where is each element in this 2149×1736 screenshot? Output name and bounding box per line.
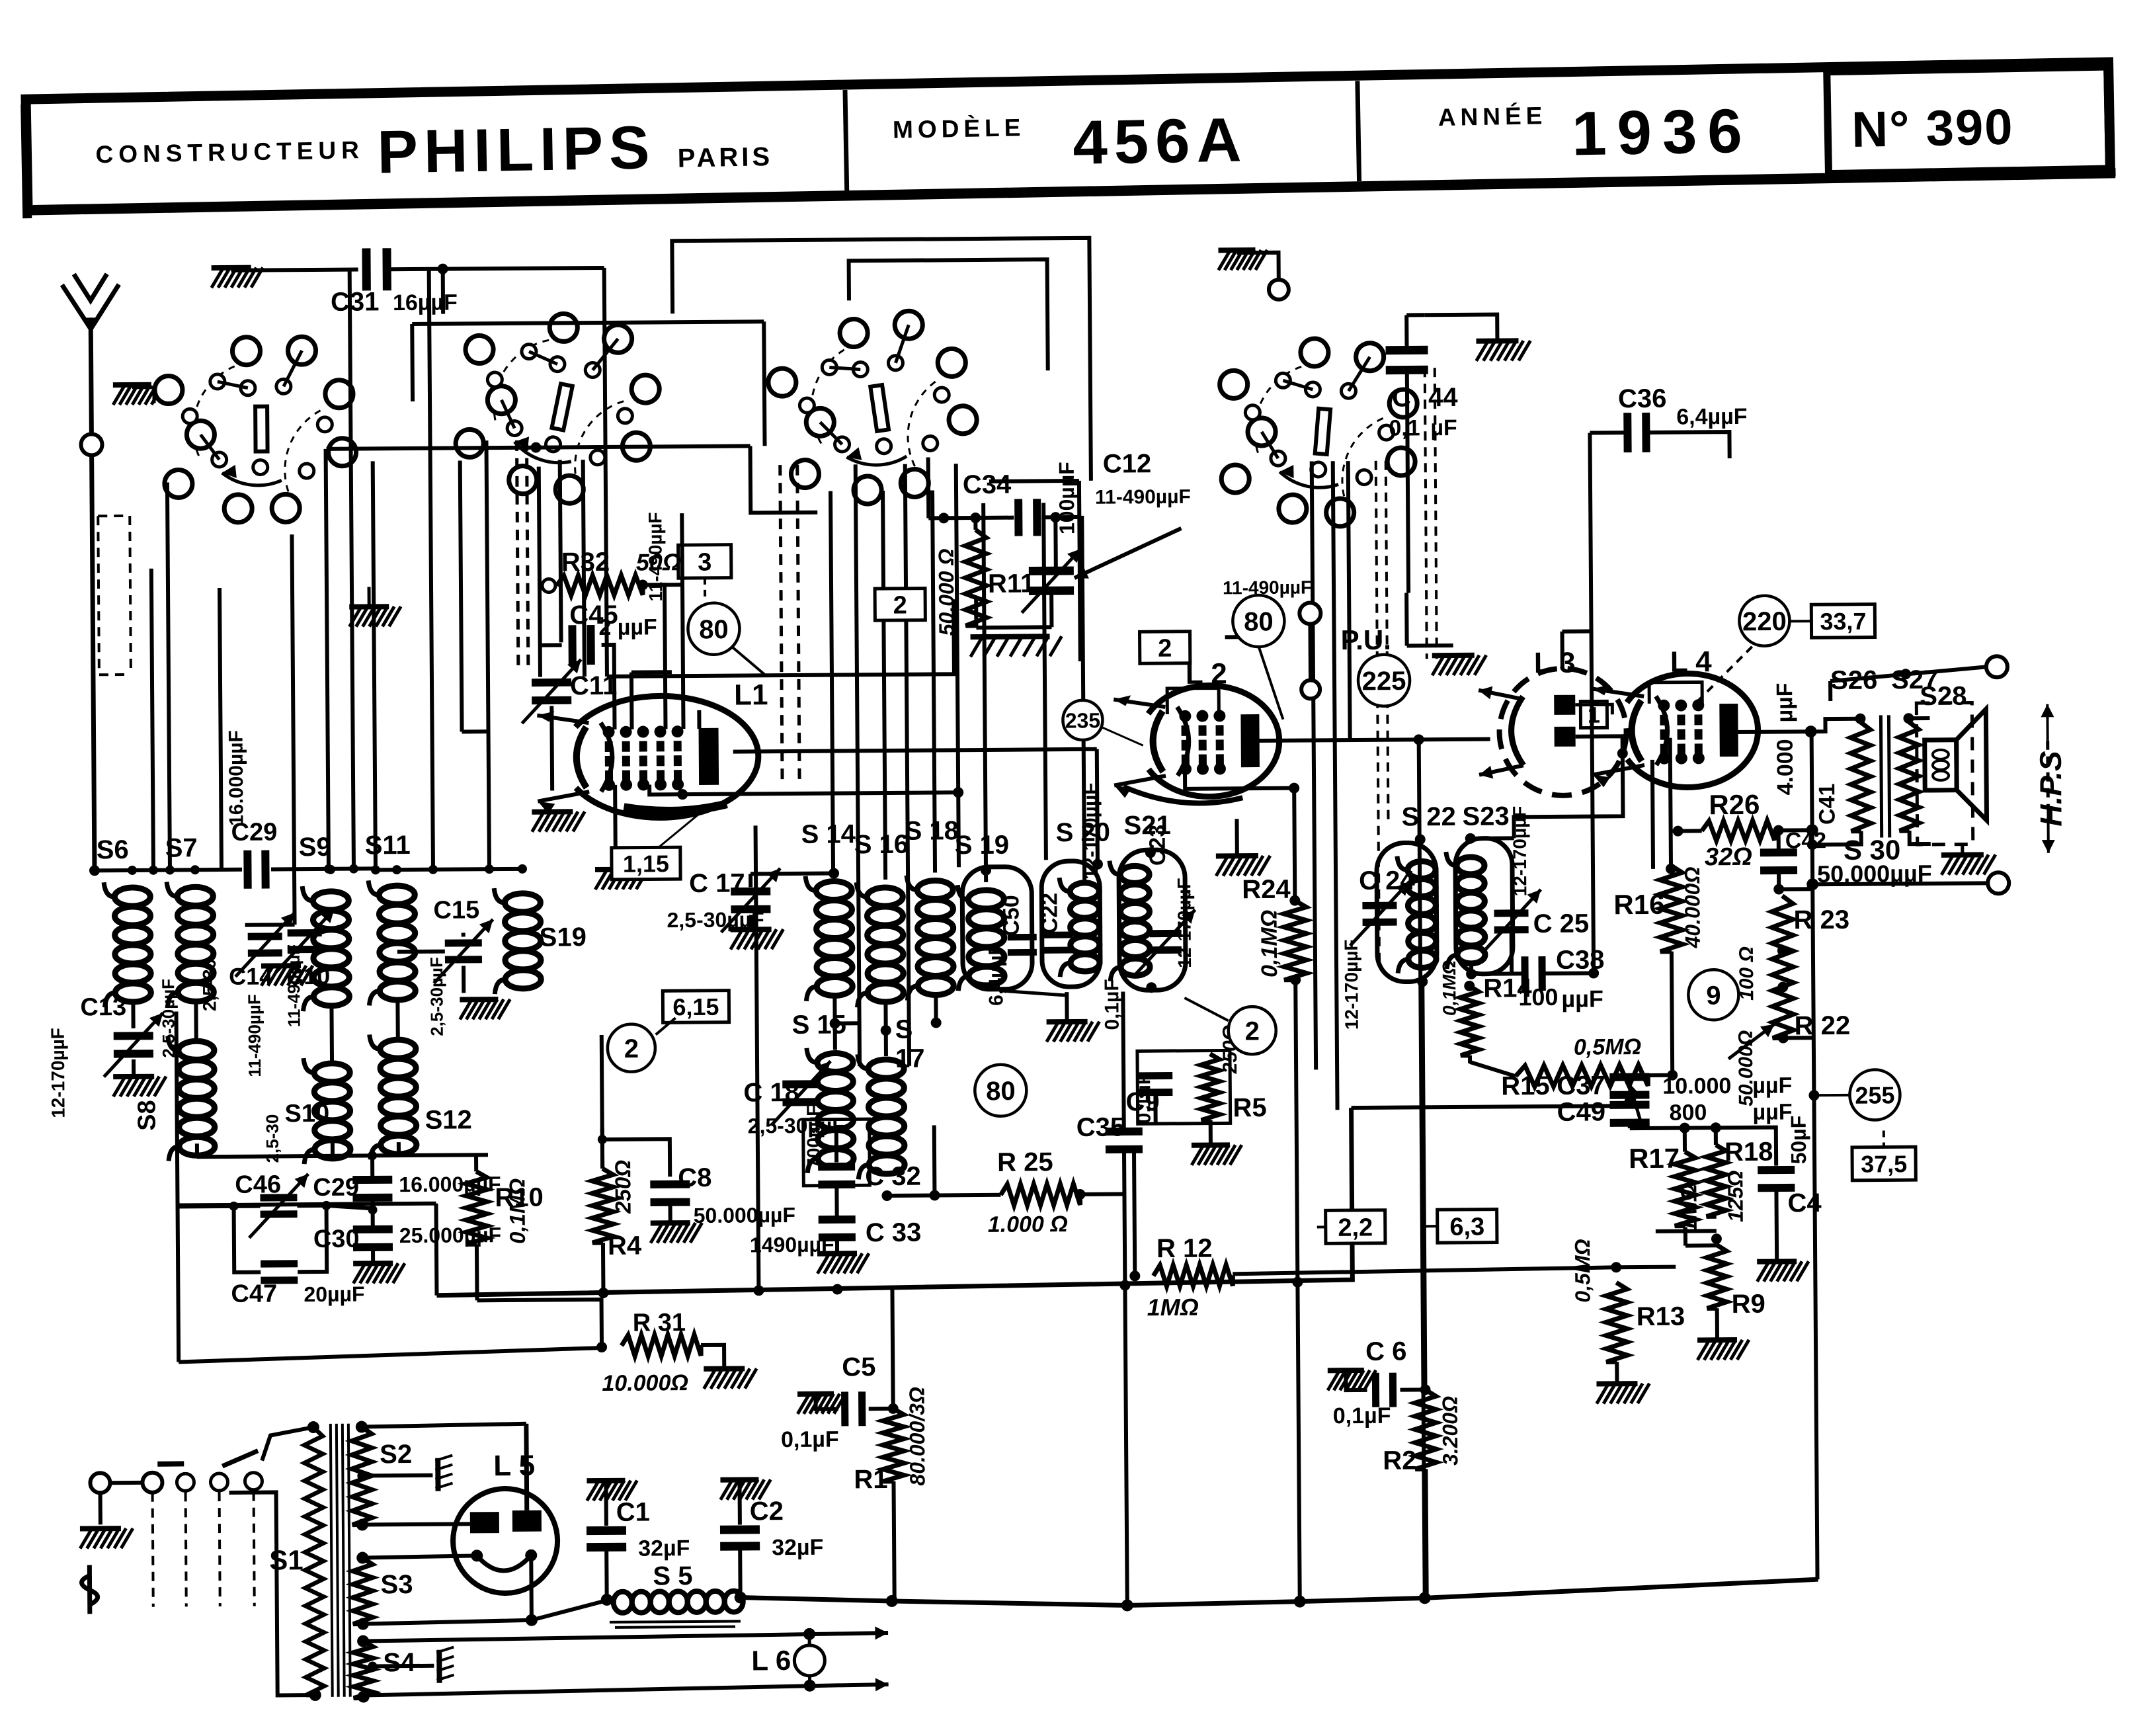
junction xyxy=(1119,1280,1130,1290)
capacitor C36 xyxy=(1623,413,1650,452)
tank outline S20-C22 xyxy=(1041,861,1100,987)
wire S19 tank to ground xyxy=(999,990,1067,996)
junction S21 bottom xyxy=(1146,982,1156,993)
wire to HPS terminal top xyxy=(1830,667,1986,681)
callout box 1 in L3 xyxy=(1580,701,1607,728)
wire R1 down to bus xyxy=(893,1481,894,1600)
junction bus dot xyxy=(530,442,541,453)
svg-text:C5: C5 xyxy=(842,1352,875,1382)
coil S17 xyxy=(858,1054,905,1179)
svg-text:6,3: 6,3 xyxy=(1449,1213,1484,1241)
svg-text:6,15: 6,15 xyxy=(672,993,719,1020)
wire drop S19 feed xyxy=(486,440,489,869)
wire L2 to gnd xyxy=(1235,819,1238,856)
pointer arrow C12 xyxy=(1074,528,1182,579)
wire gnd to C5 xyxy=(816,1394,838,1409)
junction R25 right xyxy=(1074,1189,1085,1200)
wire drop to S19 xyxy=(983,503,986,882)
wire drop xyxy=(460,460,462,731)
wire dashed antenna box bottom xyxy=(99,673,131,676)
junction 255 tap xyxy=(1808,1090,1819,1100)
capacitor C46 trimmer xyxy=(260,1194,297,1218)
wire C38 to vert xyxy=(1545,971,1594,976)
wire dashed antenna box left xyxy=(98,516,99,675)
wire C35 top xyxy=(1123,991,1123,1132)
wire C31 to switch2 top xyxy=(389,268,604,269)
wire R24 bottom to bus xyxy=(1295,980,1297,1282)
svg-text:800: 800 xyxy=(1669,1100,1707,1125)
ground PU xyxy=(1432,655,1486,676)
wire L6 top stub xyxy=(808,1634,811,1645)
trimmer arrow C24 xyxy=(1350,882,1410,946)
svg-text:C47: C47 xyxy=(231,1280,277,1307)
coil S9 xyxy=(302,886,349,1011)
wire C45 to L1 grid1 xyxy=(602,645,615,729)
ground C14 xyxy=(261,966,313,986)
callout circle 80 middle xyxy=(975,1065,1027,1117)
junction L6 top xyxy=(803,1628,815,1640)
wire S9 to S10 xyxy=(329,1007,334,1063)
trimmer arrow C10 xyxy=(274,909,335,973)
callout box 2 mid xyxy=(1140,632,1190,664)
ground below R11 xyxy=(971,636,1062,657)
junction L4 anode xyxy=(1805,725,1817,737)
wire dashed drop left pair b xyxy=(526,440,528,665)
junction xyxy=(832,1284,842,1294)
antenna xyxy=(62,274,120,436)
junction S23 bottom xyxy=(1466,969,1477,979)
junction xyxy=(1289,895,1300,906)
resistor R18 xyxy=(1706,1145,1726,1216)
wire elbow to switch3 xyxy=(750,446,818,513)
svg-text:2: 2 xyxy=(1244,1016,1260,1046)
wire R16 up xyxy=(1670,738,1671,866)
junction S4 bottom xyxy=(358,1690,370,1702)
svg-text:µµF: µµF xyxy=(1561,985,1603,1012)
svg-text:80: 80 xyxy=(986,1077,1016,1106)
trimmer arrow C46 xyxy=(249,1174,309,1238)
callout circle 2 left xyxy=(608,1024,656,1072)
svg-text:N° 390: N° 390 xyxy=(1851,99,2015,158)
wire C46 left xyxy=(234,1204,261,1208)
junction antenna bus xyxy=(89,865,100,876)
wire lower coils top rail xyxy=(197,1155,488,1157)
winding S4 xyxy=(353,1641,374,1698)
junction S4 top xyxy=(357,1635,369,1647)
wire C11 down xyxy=(549,706,554,791)
svg-text:S1: S1 xyxy=(269,1544,304,1575)
pilot lamp L6 xyxy=(794,1645,825,1676)
svg-text:2,2: 2,2 xyxy=(1338,1214,1373,1242)
svg-text:R 31: R 31 xyxy=(633,1309,686,1337)
junction S14-S15 xyxy=(830,1018,840,1028)
junction xyxy=(1900,669,1911,679)
wire dashed drop left pair a xyxy=(516,440,518,665)
junction S9 top xyxy=(326,865,335,874)
junction R17 xyxy=(1680,1123,1690,1134)
callout circle 80 right xyxy=(1233,595,1285,647)
leader 220-33,7 xyxy=(1790,620,1811,622)
svg-text:220: 220 xyxy=(1742,607,1787,636)
coil S11 xyxy=(368,880,415,1005)
wire C37 top stub xyxy=(1627,1076,1631,1081)
wire big loop over switch3 xyxy=(672,238,1091,483)
svg-text:C29: C29 xyxy=(313,1174,359,1202)
svg-text:250Ω: 250Ω xyxy=(610,1160,635,1214)
svg-text:S 14: S 14 xyxy=(801,819,856,849)
wire R32 node link xyxy=(643,583,682,587)
terminal R32 left xyxy=(542,579,555,592)
wire ground to switch4 terminal xyxy=(1237,253,1279,279)
wire S3 to L5 filament xyxy=(362,1555,477,1557)
ground R9 xyxy=(1697,1340,1749,1360)
wire vert drop c xyxy=(1348,461,1350,740)
junction C37-C49 xyxy=(1624,1096,1635,1107)
wire heater line 2 xyxy=(364,1686,829,1696)
svg-text:4.000: 4.000 xyxy=(1773,739,1799,795)
wire drop xyxy=(429,269,433,870)
output transformer core xyxy=(1881,715,1889,837)
wire drop to R25 xyxy=(932,1125,937,1195)
ground C2 xyxy=(720,1479,770,1500)
wire drop xyxy=(167,483,170,870)
dashed box speaker xyxy=(1916,703,1972,845)
junction C38 right xyxy=(1588,968,1599,978)
ground C17 xyxy=(731,929,784,950)
svg-text:700µµF: 700µµF xyxy=(803,1105,824,1169)
wire C1 top xyxy=(604,1481,608,1526)
wiper arrow R22 xyxy=(1728,1024,1775,1059)
wire drop to C45 xyxy=(560,460,561,642)
coil S19 tank xyxy=(957,885,1004,991)
wire drop S9 feed xyxy=(326,449,329,869)
svg-text:11-490µµF: 11-490µµF xyxy=(1223,577,1312,598)
wire drop from C31 row xyxy=(350,270,354,869)
arrow heater 2 xyxy=(829,1678,889,1692)
capacitor C15 trimmer xyxy=(445,939,482,963)
leader 255-37,5 xyxy=(1883,1130,1885,1147)
svg-text:C36: C36 xyxy=(1618,384,1667,414)
coil S14 xyxy=(805,876,852,1001)
wire drop to C14 xyxy=(292,534,294,925)
capacitor C29 lower xyxy=(352,1176,392,1202)
svg-text:R13: R13 xyxy=(1637,1302,1685,1332)
wire S18 bottom xyxy=(934,996,938,1022)
svg-text:C35: C35 xyxy=(1076,1112,1125,1142)
wire C12 bottom lead xyxy=(1049,593,1053,627)
wire top C34 loop xyxy=(989,479,1079,483)
svg-text:S 16: S 16 xyxy=(854,830,909,860)
wire L3 to S23 xyxy=(1514,753,1623,838)
title block frame xyxy=(26,62,2110,210)
svg-text:2 µµF: 2 µµF xyxy=(598,614,657,640)
svg-text:C41: C41 xyxy=(1814,784,1840,825)
junction bus R24 xyxy=(1294,1596,1306,1608)
switch contact b xyxy=(177,1473,194,1491)
svg-text:17: 17 xyxy=(895,1044,925,1073)
coil S16 xyxy=(856,882,903,1007)
svg-text:C 6: C 6 xyxy=(1365,1337,1407,1366)
junction S1 bottom xyxy=(309,1689,321,1701)
wire drop to S15 rail xyxy=(856,464,860,1066)
wire R32 to L1 grid xyxy=(643,585,666,729)
wire left bus B xyxy=(271,868,376,869)
junction S19L top xyxy=(518,864,527,874)
junction R26-C41 xyxy=(1806,824,1818,836)
junction C1 bottom xyxy=(601,1594,613,1606)
junction xyxy=(428,865,438,874)
wire vert drop b xyxy=(1333,461,1338,1110)
ground R5 xyxy=(1192,1145,1242,1165)
junction R22 bottom xyxy=(1778,1032,1789,1043)
junction R26 left xyxy=(1673,826,1683,837)
junction S26 top xyxy=(1855,714,1865,724)
svg-text:255: 255 xyxy=(1855,1081,1894,1108)
junction R14 top xyxy=(1464,981,1475,991)
svg-text:R2: R2 xyxy=(1383,1446,1416,1475)
svg-text:C13: C13 xyxy=(80,993,126,1021)
junction xyxy=(598,1288,608,1298)
svg-text:32µF: 32µF xyxy=(638,1536,690,1561)
wire R10 down xyxy=(475,1244,479,1300)
junction xyxy=(165,866,175,875)
wire drop S11 feed xyxy=(373,461,376,870)
callout box 33,7 xyxy=(1811,604,1875,638)
tank outline S22 xyxy=(1377,843,1437,982)
svg-text:1,15: 1,15 xyxy=(623,850,669,877)
svg-text:125Ω: 125Ω xyxy=(1723,1171,1748,1223)
resistor R24 xyxy=(1283,901,1307,980)
wire drop xyxy=(956,464,958,788)
coil S15 xyxy=(807,1048,854,1173)
svg-text:0,5MΩ: 0,5MΩ xyxy=(1574,1034,1641,1060)
junction S21 top xyxy=(1145,847,1156,858)
svg-text:S2: S2 xyxy=(380,1440,412,1469)
svg-text:S6: S6 xyxy=(97,835,129,864)
anode plate L3 upper xyxy=(1554,695,1575,715)
wire L4 anode out xyxy=(1732,729,1811,734)
ground C8 xyxy=(651,1223,702,1243)
tube L2 xyxy=(1114,685,1279,798)
svg-text:C 32: C 32 xyxy=(865,1162,921,1192)
wire R4 riser xyxy=(602,1035,602,1169)
wire into C34 xyxy=(928,516,1014,520)
trimmer arrow C17 xyxy=(721,868,781,932)
svg-text:R9: R9 xyxy=(1731,1290,1765,1319)
svg-text:L 3: L 3 xyxy=(1534,647,1576,679)
wire C46 to C29 node xyxy=(327,1205,373,1208)
trimmer arrow C15 xyxy=(434,919,494,983)
svg-text:S8: S8 xyxy=(133,1100,161,1131)
filter choke S5 xyxy=(614,1591,743,1613)
svg-text:S11: S11 xyxy=(365,831,411,860)
junction bus L2 xyxy=(1419,1592,1431,1604)
capacitor C1 xyxy=(587,1526,626,1551)
wire S11 to C15 xyxy=(397,950,445,954)
svg-text:L 6: L 6 xyxy=(751,1645,791,1676)
wire C42 top xyxy=(1777,831,1781,852)
junction PU xyxy=(1252,631,1264,643)
wire C12 top lead xyxy=(1053,517,1058,569)
wire bus switch1-switch2 xyxy=(327,446,750,448)
wire stub left of R9 xyxy=(1656,1229,1717,1233)
wire S6 to C13 xyxy=(131,1002,135,1028)
svg-text:50.000µµF: 50.000µµF xyxy=(1817,860,1932,888)
junction S3 bottom xyxy=(357,1618,369,1630)
wire C46 right xyxy=(298,1204,327,1208)
junction R13 top xyxy=(1611,1262,1621,1272)
leader 255 xyxy=(1814,1094,1849,1096)
svg-text:16µµF: 16µµF xyxy=(393,290,458,315)
wire long right drop xyxy=(1812,884,1817,1579)
trimmer arrow C13 xyxy=(104,1013,164,1077)
wire S11 to S12 xyxy=(395,1001,399,1040)
wire drop xyxy=(220,588,222,870)
wire to HPS terminal bottom xyxy=(1812,883,1988,884)
ground left of switch1 xyxy=(113,385,163,405)
capacitor C13 trimmer xyxy=(114,1032,153,1057)
wire R25 right xyxy=(1080,1192,1124,1196)
wire R16 down xyxy=(1672,952,1672,1075)
wire L1 anode to S20 tank xyxy=(733,749,1097,752)
wire into C45 xyxy=(541,643,562,647)
capacitor C25 trimmer xyxy=(1494,909,1528,933)
capacitor C18 trimmer xyxy=(782,1080,819,1106)
linkage dashed 1 xyxy=(153,1493,153,1607)
svg-text:12-170µµF: 12-170µµF xyxy=(1174,878,1195,968)
wire dashed PU drop a xyxy=(1376,461,1379,964)
wire to R25 xyxy=(887,1195,1000,1196)
wire R17 top xyxy=(1683,1128,1687,1152)
wire stub down to switch1 xyxy=(441,269,445,314)
wire into C32 xyxy=(834,1126,838,1163)
wire mains xyxy=(110,1481,142,1485)
wire C47 right xyxy=(298,1206,327,1272)
wire C46 to AVC bus xyxy=(178,1206,179,1362)
junction R15-R16 xyxy=(1667,1070,1678,1081)
junction C12 top xyxy=(1050,512,1061,522)
leader 235 xyxy=(1102,727,1143,745)
wire gnd to C6 xyxy=(1346,1370,1367,1390)
switch contact d xyxy=(245,1473,262,1490)
capacitor C31 xyxy=(362,248,391,290)
wire C36 right xyxy=(1646,432,1729,459)
wire filament CT to C1 xyxy=(532,1600,607,1620)
wire L2 anode to L3 xyxy=(1253,739,1490,741)
wire C29 top xyxy=(370,1155,374,1178)
svg-text:L1: L1 xyxy=(734,679,768,711)
ground C33 xyxy=(817,1253,869,1274)
ground L2 xyxy=(1216,856,1270,876)
wire C36 left xyxy=(1590,431,1627,434)
ground HPS xyxy=(1941,854,1996,875)
wire C35 bottom xyxy=(1124,1150,1125,1286)
wire S3 bottom to filament CT xyxy=(363,1620,532,1624)
svg-text:235: 235 xyxy=(1065,708,1101,732)
resistor R14 xyxy=(1460,986,1479,1055)
wire R14 to R15 xyxy=(1470,1061,1516,1076)
junction S22 top xyxy=(1415,834,1426,845)
junction R11 top xyxy=(970,513,981,523)
svg-text:S 5: S 5 xyxy=(653,1561,692,1591)
svg-text:0,1µF: 0,1µF xyxy=(1101,979,1123,1030)
svg-text:R24: R24 xyxy=(1242,875,1291,905)
junction L6 bottom xyxy=(804,1680,816,1692)
junction xyxy=(149,866,158,875)
svg-text:11-490µµF: 11-490µµF xyxy=(1095,486,1191,509)
winding S2 xyxy=(352,1426,372,1524)
wire C6 to R2 xyxy=(1400,1387,1426,1391)
linkage dashed 2 xyxy=(186,1492,186,1606)
wire to C8 xyxy=(602,1139,670,1177)
coil S7 xyxy=(167,882,214,1007)
callout box 2 top xyxy=(875,589,925,621)
wire dashed HPS xyxy=(2046,741,2050,807)
ground below switch2 xyxy=(349,606,401,627)
svg-text:R5: R5 xyxy=(1233,1093,1266,1122)
trimmer arrow C18 xyxy=(771,1061,831,1126)
svg-text:2: 2 xyxy=(1158,635,1172,663)
terminal HPS top xyxy=(1986,656,2007,677)
tube L1 xyxy=(537,695,758,818)
svg-text:R1: R1 xyxy=(854,1465,887,1494)
wire S7 to S8 xyxy=(194,1002,198,1041)
junction xyxy=(324,864,333,874)
coil S20 xyxy=(1059,878,1100,977)
capacitor C37 xyxy=(1609,1073,1649,1098)
ground above switch4 xyxy=(1218,250,1267,270)
capacitor C33 xyxy=(819,1216,856,1241)
svg-text:80: 80 xyxy=(699,615,729,644)
wire R17 bottom xyxy=(1683,1227,1687,1246)
wire dashed antenna box right xyxy=(130,516,131,675)
svg-text:32Ω: 32Ω xyxy=(1705,843,1752,872)
wire right side C34 loop xyxy=(1079,481,1080,661)
svg-text:R 25: R 25 xyxy=(997,1147,1053,1177)
resistor R10 xyxy=(466,1171,487,1244)
svg-text:0,1: 0,1 xyxy=(1389,415,1420,440)
junction S20 top xyxy=(1092,859,1103,870)
wire gnd stub HPS xyxy=(1961,846,1964,855)
resistor R11 xyxy=(965,530,987,626)
junction R22 tap2 xyxy=(1777,981,1788,992)
junction xyxy=(371,865,380,874)
wire L4 top cage xyxy=(1649,682,1702,704)
leader 2 to 6,15 xyxy=(656,1018,676,1034)
coil S21 xyxy=(1110,860,1150,981)
wire S27 top to speaker xyxy=(1908,716,1929,720)
svg-text:S: S xyxy=(895,1015,913,1044)
svg-text:S19: S19 xyxy=(540,923,587,952)
leader dashed 3-80 xyxy=(704,578,706,601)
wire drop to S18 xyxy=(932,490,935,872)
svg-text:50.000µµF: 50.000µµF xyxy=(694,1203,796,1227)
ground C6 xyxy=(1328,1370,1376,1391)
junction xyxy=(753,1285,764,1296)
junction R31 left xyxy=(596,1342,607,1352)
wire S27 bottom to speaker xyxy=(1910,831,1931,844)
ground mains xyxy=(80,1528,133,1549)
wire C2 top xyxy=(737,1480,741,1525)
capacitor C30 xyxy=(353,1225,393,1251)
wire L6 bottom stub xyxy=(808,1676,811,1686)
tube L4 xyxy=(1592,673,1758,788)
wire dashed PU drop b xyxy=(1386,461,1389,825)
svg-text:C30: C30 xyxy=(313,1225,360,1253)
wire S23 bottom xyxy=(1471,966,1521,974)
junction R12 left xyxy=(1129,1270,1140,1281)
capacitor 700uuF/C32 xyxy=(818,1163,855,1188)
